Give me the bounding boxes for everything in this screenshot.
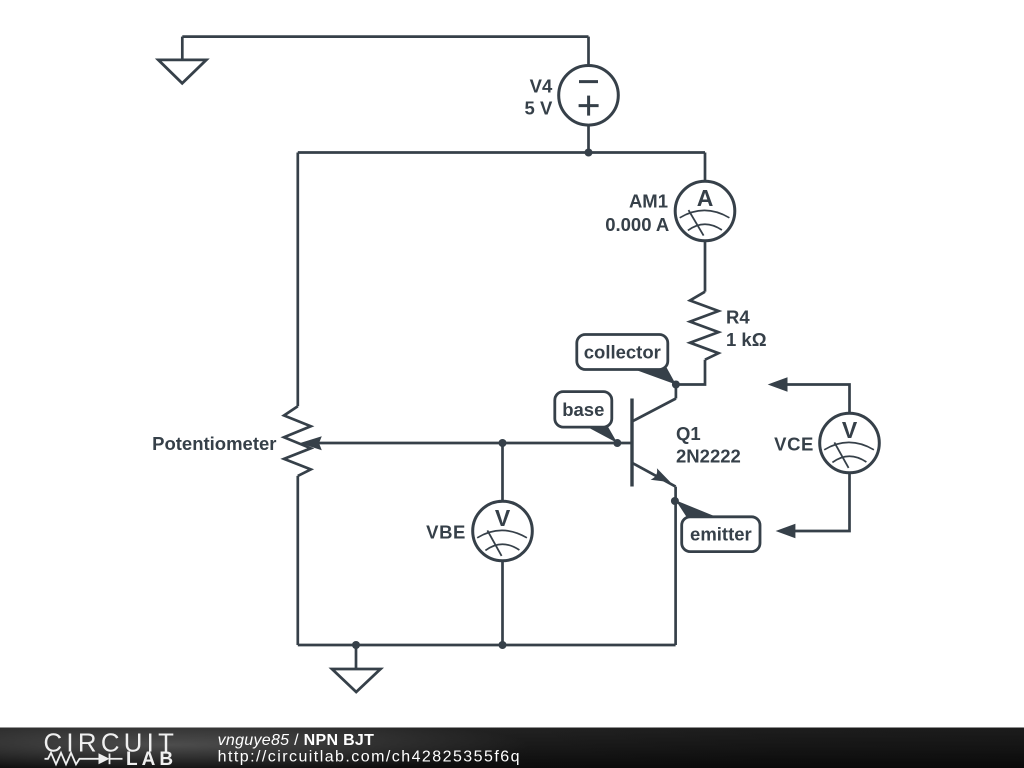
svg-text:0.000 A: 0.000 A: [605, 214, 669, 235]
svg-text:V4: V4: [530, 75, 553, 96]
svg-text:vnguye85 / NPN BJT: vnguye85 / NPN BJT: [218, 732, 375, 749]
svg-text:Q1: Q1: [676, 423, 701, 444]
svg-text:V: V: [842, 417, 858, 443]
svg-text:Potentiometer: Potentiometer: [152, 433, 276, 454]
svg-text:AM1: AM1: [629, 191, 668, 212]
svg-text:VCE: VCE: [774, 434, 814, 455]
svg-text:collector: collector: [584, 342, 661, 363]
svg-text:1 kΩ: 1 kΩ: [726, 329, 767, 350]
svg-text:V: V: [495, 505, 511, 531]
svg-text:A: A: [697, 185, 714, 211]
svg-text:base: base: [562, 399, 604, 420]
svg-text:5 V: 5 V: [525, 98, 553, 119]
svg-text:2N2222: 2N2222: [676, 446, 741, 467]
svg-text:LAB: LAB: [126, 749, 177, 768]
svg-text:emitter: emitter: [690, 524, 752, 545]
svg-text:http://circuitlab.com/ch428253: http://circuitlab.com/ch42825355f6q: [218, 749, 521, 766]
svg-text:VBE: VBE: [426, 522, 466, 543]
svg-text:R4: R4: [726, 307, 750, 328]
